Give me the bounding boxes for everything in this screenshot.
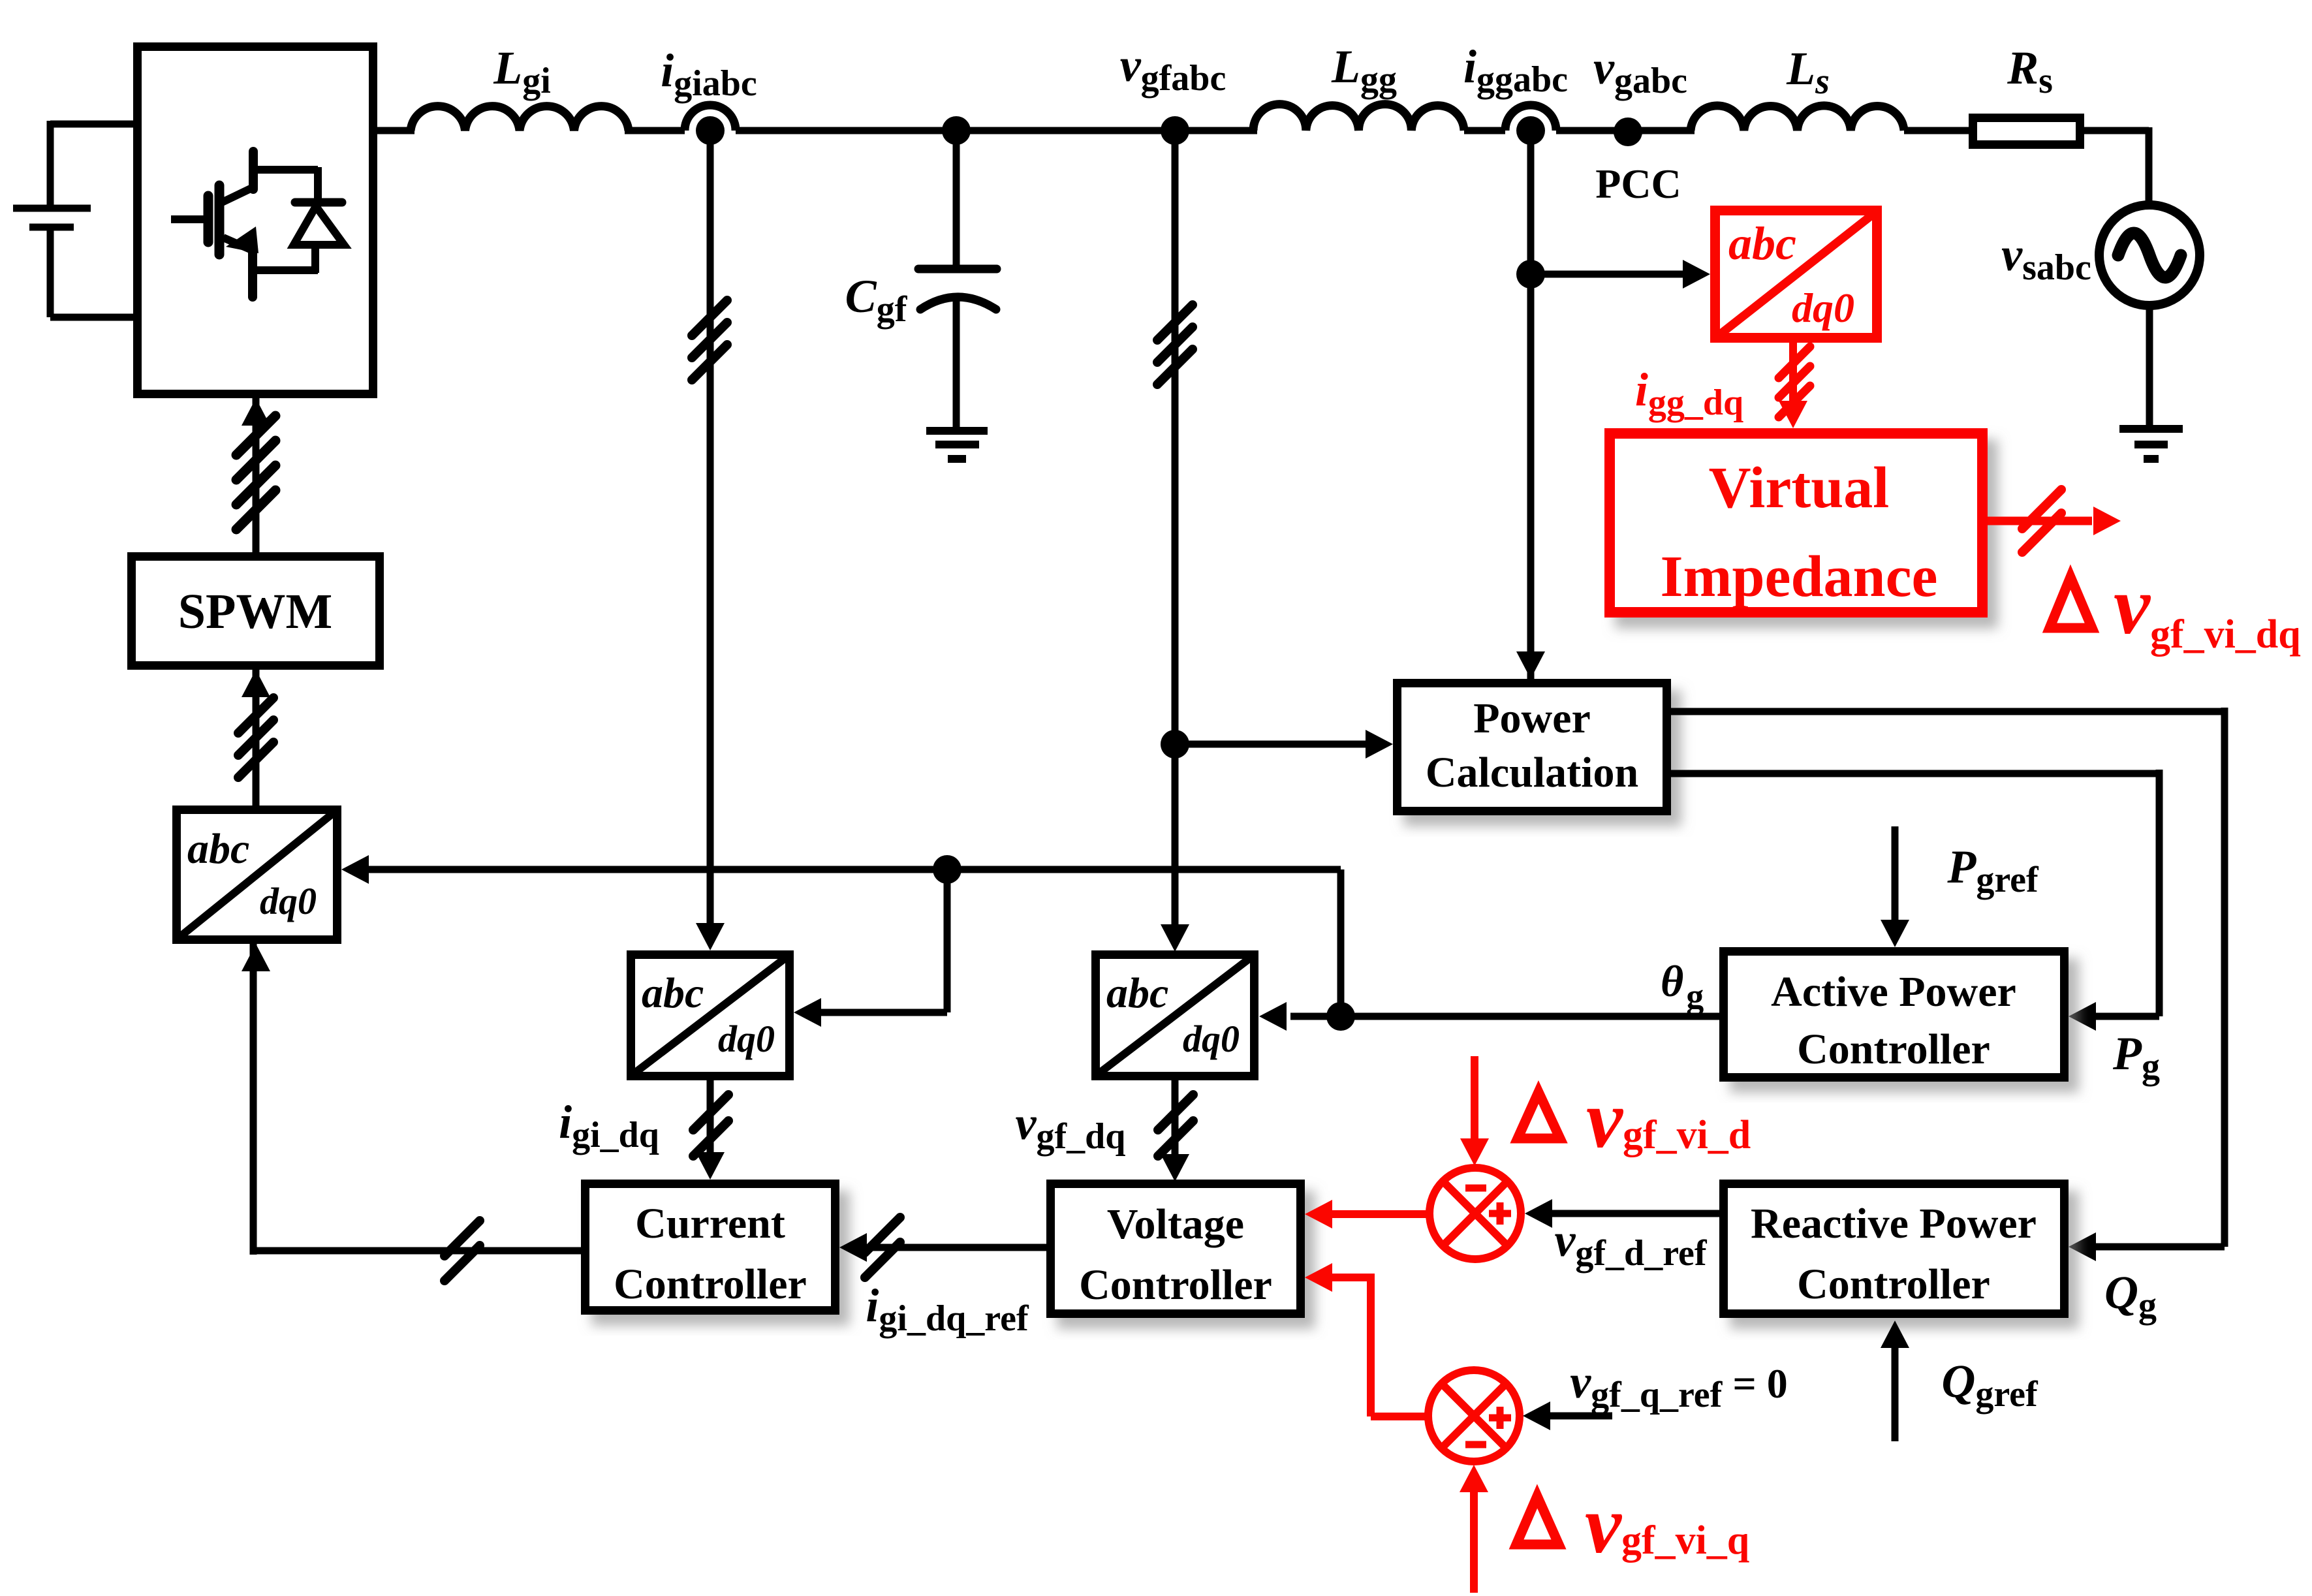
resistor Rs bbox=[1973, 118, 2080, 145]
ground (Cgf) bbox=[926, 427, 988, 435]
wire CC output to dq0/abc bbox=[253, 1247, 581, 1255]
wire delta vgf_vi_dq output (red) bbox=[1988, 517, 2092, 525]
svg-text:Power: Power bbox=[1473, 695, 1591, 742]
wire Lgg to node iggabc bbox=[1464, 127, 1505, 134]
wire theta_g bbox=[1341, 1013, 1719, 1020]
wire delta vgf_vi_d input (red) bbox=[1471, 1056, 1478, 1142]
wire DC bus bottom bbox=[47, 227, 54, 317]
svg-text:Controller: Controller bbox=[1797, 1260, 1990, 1308]
wire source to ground bbox=[2146, 304, 2153, 429]
wire vgf_dq bbox=[1172, 1080, 1179, 1158]
svg-text:vgf_dq: vgf_dq bbox=[1016, 1097, 1126, 1157]
inductor Lgg bbox=[1253, 104, 1464, 131]
node theta junction bbox=[1326, 1002, 1355, 1031]
wire theta rail bbox=[369, 866, 1341, 873]
diode D1 (anti-parallel) bbox=[294, 167, 344, 273]
svg-text:vsabc: vsabc bbox=[2001, 228, 2091, 288]
wire Cgf bbox=[953, 131, 960, 268]
wire theta riser bbox=[1337, 869, 1345, 1016]
wire igi_dq bbox=[707, 1080, 714, 1156]
node theta to igi transform bbox=[933, 855, 961, 884]
wire Lgi to node bbox=[625, 127, 685, 134]
wire node to Lgg bbox=[736, 127, 1257, 134]
svg-text:SPWM: SPWM bbox=[178, 584, 332, 639]
wire Ls to Rs bbox=[1904, 127, 1973, 134]
svg-text:abc: abc bbox=[642, 969, 704, 1017]
svg-text:vgf_vi_q: vgf_vi_q bbox=[1585, 1480, 1749, 1571]
node vgfabc junction bbox=[1161, 116, 1189, 145]
svg-text:Qg: Qg bbox=[2104, 1266, 2157, 1326]
svg-text:vgabc: vgabc bbox=[1593, 42, 1687, 101]
svg-text:vgf_vi_dq: vgf_vi_dq bbox=[2114, 561, 2301, 657]
SPWM block bbox=[132, 557, 380, 666]
svg-text:Lgg: Lgg bbox=[1331, 40, 1397, 100]
svg-text:Controller: Controller bbox=[1079, 1261, 1272, 1309]
svg-text:igiabc: igiabc bbox=[661, 44, 757, 104]
label delta vgf_vi_dq bbox=[2050, 577, 2092, 628]
inverter block bbox=[138, 47, 373, 394]
node Cgf junction bbox=[942, 116, 971, 145]
wire S1 to Voltage Controller (red) bbox=[1328, 1210, 1429, 1218]
node vgf to power calc bbox=[1161, 730, 1189, 759]
svg-text:Virtual: Virtual bbox=[1709, 456, 1890, 520]
wire to PCC bbox=[1556, 127, 1695, 134]
abc/dq0 transform (vgf) bbox=[1096, 955, 1255, 1076]
Qgref input bbox=[1892, 1345, 1899, 1441]
wire igg to abc/dq0 bbox=[1531, 271, 1687, 278]
svg-text:Rs: Rs bbox=[2007, 42, 2053, 101]
label delta vgf_vi_d bbox=[1518, 1092, 1560, 1138]
node iggabc (current sensor hop) bbox=[1505, 105, 1556, 131]
wire cap to ground bbox=[953, 295, 960, 431]
svg-text:igi_dq: igi_dq bbox=[559, 1096, 659, 1155]
svg-text:Pgref: Pgref bbox=[1946, 841, 2039, 900]
svg-text:dq0: dq0 bbox=[1183, 1018, 1240, 1060]
svg-text:abc: abc bbox=[1106, 969, 1168, 1017]
wire Qg feedback bbox=[1671, 708, 2225, 715]
wire S2 to Voltage Controller (red) bbox=[1328, 1274, 1371, 1281]
svg-text:vgf_d_ref: vgf_d_ref bbox=[1554, 1214, 1707, 1274]
svg-text:Qgref: Qgref bbox=[1941, 1355, 2039, 1415]
Virtual Impedance block (red) bbox=[1610, 433, 1982, 612]
Current Controller block bbox=[586, 1184, 836, 1311]
svg-text:vgfabc: vgfabc bbox=[1120, 39, 1226, 99]
Power Calculation block bbox=[1398, 683, 1667, 811]
abc/dq0 transform (modulation) bbox=[177, 810, 337, 940]
svg-text:Pg: Pg bbox=[2112, 1027, 2160, 1087]
wire SPWM to inverter (gate signals) bbox=[253, 398, 260, 552]
svg-text:vgf_vi_d: vgf_vi_d bbox=[1586, 1074, 1751, 1165]
svg-text:θg: θg bbox=[1661, 956, 1704, 1016]
svg-text:Cgf: Cgf bbox=[845, 270, 908, 330]
wire DC bus top bbox=[50, 121, 133, 128]
capacitor Cgf bbox=[918, 265, 997, 274]
svg-text:PCC: PCC bbox=[1595, 161, 1681, 207]
summing junction S2 bbox=[1428, 1370, 1520, 1462]
node igiabc (current sensor hop) bbox=[685, 105, 736, 131]
wire vgf_d_ref bbox=[1552, 1210, 1719, 1217]
wire iggabc measurement bbox=[1527, 131, 1535, 679]
wire to SPWM bbox=[253, 670, 260, 806]
wire inverter output bbox=[377, 127, 414, 134]
wire Rs to grid source bbox=[2080, 127, 2149, 134]
inductor Lgi bbox=[411, 106, 629, 131]
svg-text:Controller: Controller bbox=[1797, 1025, 1990, 1073]
svg-text:Lgi: Lgi bbox=[493, 42, 551, 101]
svg-text:Reactive Power: Reactive Power bbox=[1751, 1200, 2037, 1247]
svg-text:Active Power: Active Power bbox=[1771, 968, 2016, 1016]
inductor Ls bbox=[1691, 106, 1904, 131]
source vsabc bbox=[2099, 205, 2200, 305]
abc/dq0 transform (red, igg) bbox=[1715, 211, 1877, 338]
svg-text:Voltage: Voltage bbox=[1107, 1200, 1244, 1248]
wire igg_dq (red) bbox=[1789, 343, 1797, 405]
wire vgfabc measurement bbox=[1172, 131, 1179, 928]
svg-text:dq0: dq0 bbox=[718, 1018, 775, 1060]
svg-text:Controller: Controller bbox=[614, 1260, 807, 1308]
svg-text:Impedance: Impedance bbox=[1661, 544, 1938, 609]
wire vgf_q_ref bbox=[1548, 1413, 1612, 1420]
wire igiabc measurement bbox=[707, 131, 714, 927]
Pgref input bbox=[1892, 826, 1899, 922]
Voltage Controller block bbox=[1051, 1184, 1301, 1314]
wire Pg feedback bbox=[1671, 770, 2159, 777]
summing junction S1 bbox=[1429, 1168, 1521, 1259]
wire theta drop to abc/dq0 igi bbox=[944, 869, 951, 1012]
svg-text:dq0: dq0 bbox=[1792, 285, 1854, 331]
battery Vdc bbox=[13, 205, 91, 212]
svg-text:dq0: dq0 bbox=[260, 880, 317, 922]
svg-text:igi_dq_ref: igi_dq_ref bbox=[866, 1279, 1029, 1339]
wire delta vgf_vi_q input (red) bbox=[1470, 1489, 1478, 1593]
wire igi_dq_ref (VC to CC) bbox=[868, 1244, 1046, 1251]
wire vgf to Power Calculation bbox=[1175, 741, 1368, 748]
node igg tap bbox=[1516, 260, 1545, 289]
abc/dq0 transform (igi) bbox=[631, 955, 790, 1076]
Active Power Controller block bbox=[1724, 952, 2065, 1078]
svg-text:iggabc: iggabc bbox=[1463, 40, 1568, 100]
ground (grid) bbox=[2119, 425, 2183, 433]
Reactive Power Controller block bbox=[1724, 1184, 2065, 1314]
svg-text:abc: abc bbox=[187, 825, 249, 873]
node vgabc (PCC) bbox=[1614, 117, 1642, 146]
label delta vgf_vi_q bbox=[1516, 1496, 1559, 1544]
svg-text:vgf_q_ref = 0: vgf_q_ref = 0 bbox=[1570, 1356, 1788, 1415]
svg-text:Calculation: Calculation bbox=[1426, 749, 1638, 796]
svg-text:Ls: Ls bbox=[1786, 42, 1830, 102]
transistor Q1 (IGBT) bbox=[171, 151, 318, 297]
svg-text:Current: Current bbox=[635, 1200, 785, 1247]
svg-text:igg_dq: igg_dq bbox=[1635, 364, 1743, 423]
svg-text:abc: abc bbox=[1728, 217, 1796, 270]
